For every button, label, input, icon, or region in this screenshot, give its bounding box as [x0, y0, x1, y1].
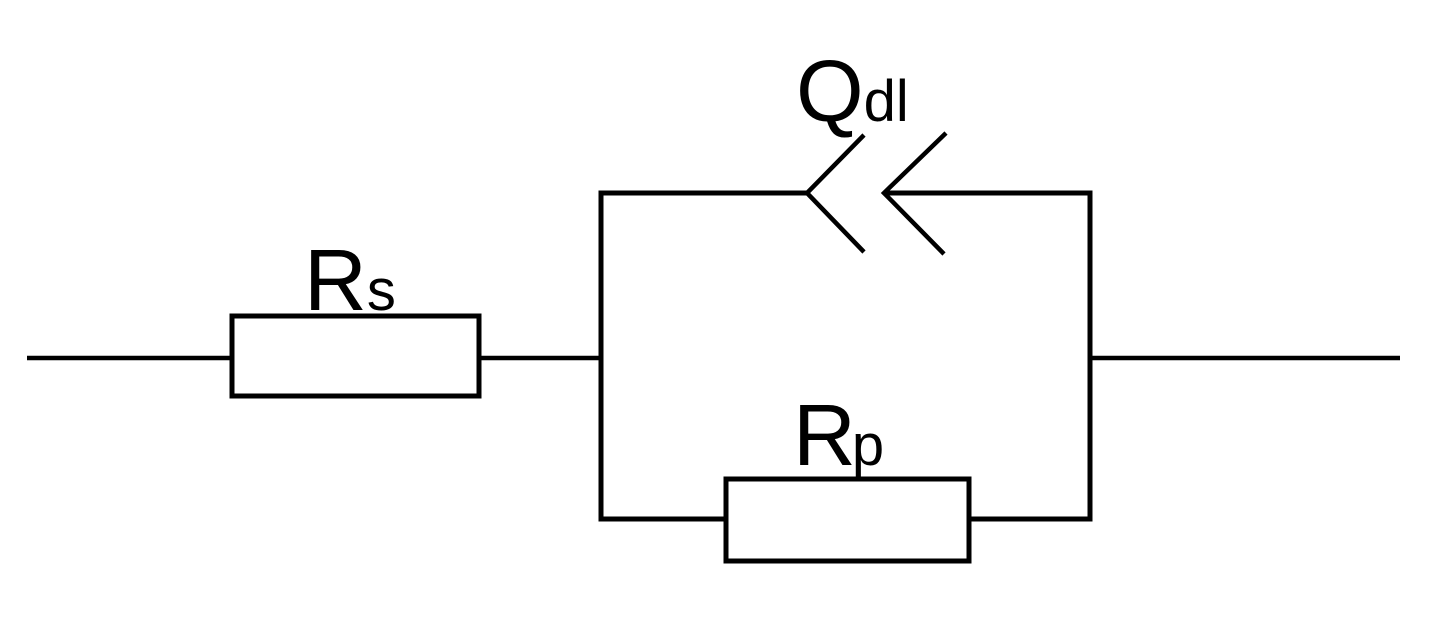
resistor Rp	[726, 387, 969, 561]
resistor Rs	[232, 232, 479, 396]
wire bottom branch left segment	[599, 517, 729, 522]
wire top branch left segment	[599, 191, 808, 196]
wire right lead	[1090, 356, 1400, 361]
wire Rs to node	[479, 356, 603, 361]
wire left lead	[27, 356, 233, 361]
capacitor CPE Qdl	[796, 43, 946, 254]
wire top branch right segment	[884, 191, 1093, 196]
wire parallel-box left vertical	[599, 191, 604, 522]
wire parallel-box right vertical	[1088, 191, 1093, 522]
wire bottom branch right segment	[967, 517, 1093, 522]
